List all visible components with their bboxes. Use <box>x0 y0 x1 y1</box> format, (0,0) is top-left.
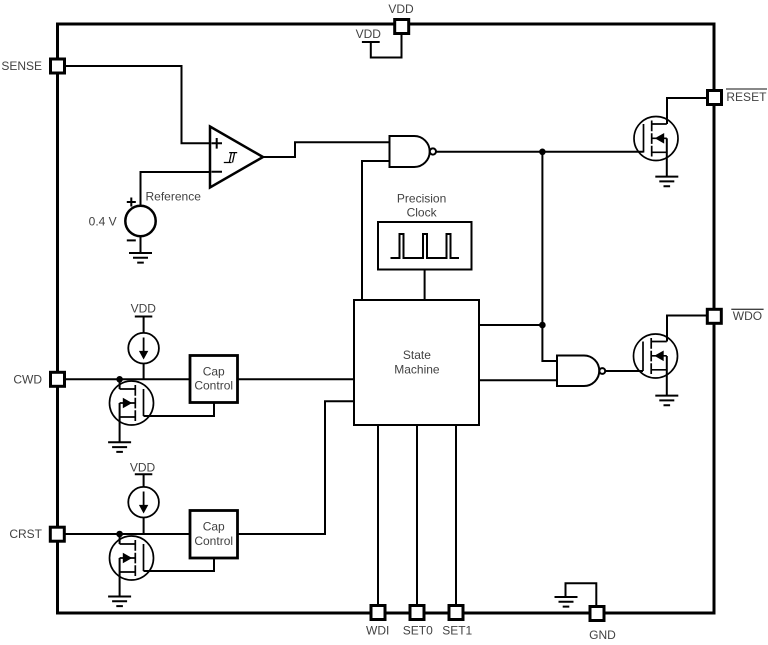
wire state machine to SET0 pin <box>416 425 418 606</box>
svg-text:Cap: Cap <box>203 365 225 379</box>
pin WDO <box>707 309 721 323</box>
wire CWD FET gate to cap control 1 <box>144 403 215 417</box>
VDD rail symbol cs1 <box>135 316 153 318</box>
svg-text:SET1: SET1 <box>442 624 472 638</box>
wire state machine to node <box>479 324 542 326</box>
pin CWD <box>51 372 65 386</box>
wire comparator output to NAND1 top input <box>263 142 390 157</box>
svg-text:GND: GND <box>589 628 616 642</box>
svg-text:Reference: Reference <box>146 190 202 204</box>
IC outer boundary <box>58 24 715 613</box>
current source I1 <box>128 333 159 364</box>
current source I2 <box>128 487 159 518</box>
svg-text:Control: Control <box>194 379 233 393</box>
wire VDD pin hook <box>371 35 402 58</box>
transistor Q1 RESET driver <box>634 117 678 161</box>
svg-text:State: State <box>403 348 431 362</box>
wire SENSE net to comparator + input <box>66 66 211 143</box>
wire node vertical to NAND2 top input <box>542 152 557 361</box>
wire cap control 1 to state machine <box>238 378 355 380</box>
pin SET0 <box>410 606 424 620</box>
pin SET1 <box>449 606 463 620</box>
ground GND pin <box>555 597 578 607</box>
node junction CRST <box>116 531 123 538</box>
cap control block 1 <box>190 356 238 403</box>
wire current source 2 to CRST net <box>143 518 145 535</box>
svg-text:Control: Control <box>194 534 233 548</box>
VDD rail symbol cs2 <box>135 473 153 475</box>
wire CWD FET drain <box>119 379 121 389</box>
wire state machine to SET1 pin <box>455 425 457 606</box>
svg-text:Cap: Cap <box>203 520 225 534</box>
node junction CWD <box>116 376 123 383</box>
wire CRST FET drain <box>119 534 121 544</box>
cap control block 2 <box>190 511 238 559</box>
wire state machine to WDI pin <box>377 425 379 606</box>
VDD rail symbol top <box>362 41 380 43</box>
wire cap control 2 to state machine <box>238 401 355 534</box>
comparator U1 <box>210 127 263 188</box>
wire NAND1 output to RESET FET gate <box>436 151 644 153</box>
NAND gate U3 <box>557 356 605 387</box>
node junction state machine tap <box>539 322 546 329</box>
ground WDO driver <box>655 396 678 406</box>
wire state machine to NAND2 bottom input <box>479 379 557 381</box>
pin VDD <box>395 20 409 34</box>
wire WDO FET source to ground <box>666 356 668 396</box>
wire CRST FET gate to cap control 2 <box>144 558 215 571</box>
wire reference to comparator - input <box>141 172 211 206</box>
svg-text:CRST: CRST <box>9 527 42 541</box>
state machine block <box>354 300 479 425</box>
svg-text:Precision: Precision <box>397 192 446 206</box>
svg-text:CWD: CWD <box>13 372 42 386</box>
wire NAND2 output to WDO FET gate <box>605 370 643 372</box>
transistor Q3 CWD clamp <box>110 381 154 425</box>
ground CWD clamp <box>108 442 131 452</box>
wire VDD rail to current source 1 <box>143 317 145 333</box>
pin RESET <box>708 91 722 105</box>
wire CRST FET source to ground <box>119 558 121 597</box>
wire RESET FET source to ground <box>666 138 668 176</box>
ground reference <box>129 253 152 263</box>
wire NAND1 bottom input from state machine top <box>362 161 390 300</box>
svg-text:RESET: RESET <box>726 90 767 104</box>
wire precision clock to state machine <box>424 270 426 301</box>
svg-text:0.4 V: 0.4 V <box>89 214 117 228</box>
svg-text:Machine: Machine <box>394 363 440 377</box>
wire CRST pin to cap control 2 <box>66 533 191 535</box>
svg-text:VDD: VDD <box>130 461 156 475</box>
svg-text:VDD: VDD <box>131 302 157 316</box>
transistor Q4 CRST clamp <box>110 536 154 580</box>
ground RESET driver <box>655 177 678 187</box>
pin GND <box>590 607 604 621</box>
wire RESET pin to FET drain <box>667 98 707 124</box>
svg-text:VDD: VDD <box>356 27 382 41</box>
voltage source reference 0.4 V <box>125 198 155 254</box>
transistor Q2 WDO driver <box>634 334 678 378</box>
wire CWD FET source to ground <box>119 403 121 442</box>
wire GND pin hook to ground <box>566 583 597 605</box>
svg-text:WDI: WDI <box>366 624 389 638</box>
svg-text:Clock: Clock <box>407 206 438 220</box>
svg-text:SENSE: SENSE <box>1 59 42 73</box>
precision clock block <box>378 222 472 270</box>
wire current source 1 to CWD net <box>143 364 145 379</box>
wire CWD pin to cap control 1 <box>66 378 191 380</box>
node junction NAND1 output <box>539 149 546 156</box>
svg-text:WDO: WDO <box>733 309 762 323</box>
svg-text:SET0: SET0 <box>403 624 433 638</box>
svg-text:VDD: VDD <box>388 2 414 16</box>
pin CRST <box>50 527 64 541</box>
wire VDD rail to current source 2 <box>143 475 145 488</box>
pin WDI <box>371 606 385 620</box>
ground CRST clamp <box>108 597 131 607</box>
pin SENSE <box>51 59 65 73</box>
wire WDO pin to FET drain <box>667 316 706 342</box>
NAND gate U2 <box>390 136 437 167</box>
